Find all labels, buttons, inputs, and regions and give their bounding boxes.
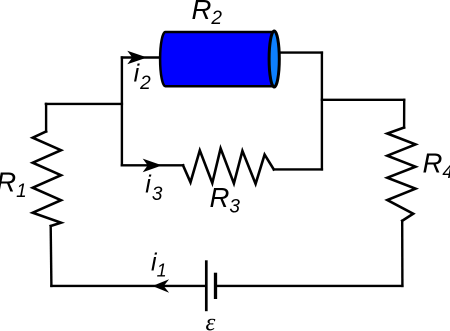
resistor R3 zigzag <box>183 148 274 184</box>
wire left outer vertical lower <box>50 226 53 286</box>
current arrow i3 (pointing right) <box>143 159 162 173</box>
wire R2 right lead <box>279 51 322 53</box>
svg-text:i1: i1 <box>151 249 167 281</box>
svg-text:R3: R3 <box>210 182 241 218</box>
wire left outer vertical upper <box>45 104 47 132</box>
wire R3 left lead <box>122 164 183 166</box>
wire left inner vertical <box>121 58 123 166</box>
svg-text:i2: i2 <box>134 59 152 94</box>
wire top-left horizontal <box>46 103 122 105</box>
wire right inner vertical <box>321 53 323 170</box>
resistor R2 cylinder body <box>160 32 274 86</box>
battery EMF source: long plate <box>205 260 208 311</box>
wire right outer vertical upper <box>403 100 406 128</box>
svg-text:R2: R2 <box>192 0 223 29</box>
resistor R1 zigzag <box>33 132 61 227</box>
svg-text:R4: R4 <box>423 148 450 183</box>
current arrow i2 (pointing right) <box>127 51 147 65</box>
wire right outer vertical lower <box>401 221 404 286</box>
wire R3 right lead <box>274 168 322 170</box>
wire right-top horizontal <box>322 99 404 101</box>
battery EMF source: short plate <box>214 273 217 299</box>
svg-text:R1: R1 <box>0 167 27 202</box>
resistor R4 zigzag <box>387 128 415 221</box>
wire bottom left (corner to battery) <box>51 285 205 287</box>
resistor R2 cylinder end cap <box>269 31 279 87</box>
svg-text:i3: i3 <box>145 171 163 206</box>
wire R2 left lead <box>122 56 161 58</box>
current arrow i1 (pointing left) <box>152 279 169 293</box>
svg-text:ε: ε <box>206 310 216 331</box>
wire bottom right (battery to corner) <box>217 285 403 287</box>
